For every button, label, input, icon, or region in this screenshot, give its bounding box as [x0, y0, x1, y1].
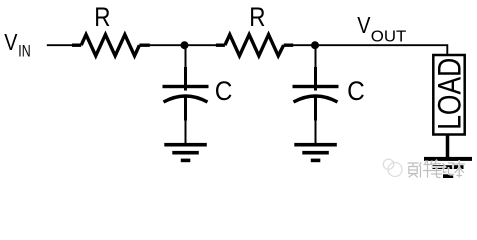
load LOAD (box) — [433, 55, 464, 135]
resistor R1 — [72, 35, 150, 56]
wire: C2 to GND2 — [314, 97, 317, 121]
watermark text "硬件笔记本" (drawn as faint strokes; white halo over ground bars) — [408, 161, 465, 178]
wire: C1 to GND1 — [184, 97, 187, 121]
svg-text:R: R — [94, 2, 110, 32]
wire W1: VIN to R1 — [47, 44, 74, 46]
wire: node B down to C2 — [315, 45, 317, 67]
svg-text:V: V — [4, 29, 18, 55]
resistor R2 — [216, 35, 293, 56]
watermark logo (two faint circles) — [383, 159, 402, 176]
node B (junction dot) — [311, 41, 319, 49]
ground GND1 — [164, 143, 207, 162]
label VOUT (net V_OUT) — [357, 12, 406, 45]
wire: LOAD to GND3 — [446, 135, 450, 158]
svg-text:C: C — [215, 76, 233, 106]
label VIN (net V_IN) — [4, 29, 31, 61]
wire: node A down to C1 — [185, 45, 187, 67]
svg-text:V: V — [357, 12, 371, 38]
wire W3: R2 to node B to LOAD corner — [293, 45, 447, 56]
svg-text:R: R — [249, 2, 265, 32]
capacitor C2 — [293, 85, 339, 102]
svg-text:LOAD: LOAD — [431, 58, 467, 130]
node A (junction dot) — [181, 41, 189, 49]
capacitor C1 — [163, 85, 209, 102]
ground GND2 — [294, 143, 337, 162]
ground GND3 — [424, 157, 472, 178]
svg-text:C: C — [347, 76, 365, 106]
svg-text:IN: IN — [18, 43, 30, 61]
wire W2: R1 to node A to R2 — [150, 44, 217, 46]
svg-text:OUT: OUT — [371, 29, 407, 46]
